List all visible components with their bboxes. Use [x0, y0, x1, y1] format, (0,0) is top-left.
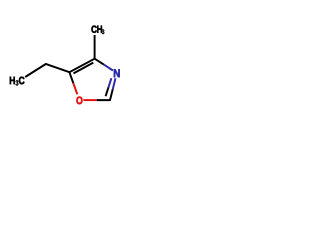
bond C2=N3 inner black half [106, 87, 109, 96]
methyl label H [97, 26, 102, 33]
bond C4=C5 main + C5-C7 + C7-C8 (ethyl chain) [25, 59, 94, 77]
methyl label C [91, 26, 96, 33]
ethyl label subscript 3 [16, 80, 19, 85]
bond C5-O1 black half [69, 72, 73, 83]
methyl label subscript 3 [102, 29, 105, 34]
bond O1-C2 red half [83, 99, 96, 101]
bond C4-N3 blue half [104, 65, 113, 71]
bond C5-O1 red half [73, 83, 77, 94]
ethyl label C [19, 77, 25, 85]
bond C4-N3 black half [95, 59, 104, 65]
atom label O1 [76, 97, 82, 105]
bond C4-C6 methyl [94, 35, 96, 59]
ethyl label H [10, 77, 15, 84]
bond C4=C5 inner line [74, 63, 94, 74]
bond C2=N3 main blue half [113, 78, 116, 89]
bond C2=N3 inner blue half [109, 78, 112, 87]
bond O1-C2 black half + C2=N3 main black half [97, 89, 113, 100]
atom label N3 [114, 69, 120, 77]
